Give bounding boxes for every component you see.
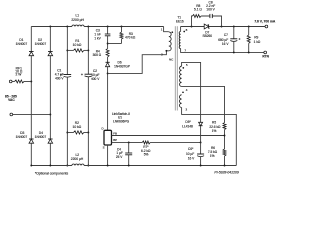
svg-text:1%: 1%	[210, 154, 215, 158]
node D3 bottom	[30, 165, 32, 167]
svg-text:1N4007: 1N4007	[16, 42, 28, 46]
label pin 7	[184, 48, 186, 52]
wire bottom rail left	[31, 165, 72, 167]
label L2	[71, 153, 84, 161]
label D5	[182, 120, 193, 129]
svg-text:D: D	[102, 127, 104, 131]
transformer secondary winding	[179, 32, 180, 49]
wire source pin	[107, 145, 109, 166]
wire RF1 to bridge	[12, 80, 31, 82]
resistor R4	[106, 49, 109, 58]
label C7	[218, 33, 229, 46]
node D2 top	[49, 26, 51, 28]
wire R4 to D6	[107, 57, 109, 62]
svg-text:1 kV: 1 kV	[94, 36, 101, 40]
svg-text:D5*: D5*	[185, 120, 191, 124]
label C4	[116, 148, 123, 160]
resistor R5	[223, 123, 226, 130]
svg-text:1%: 1%	[212, 129, 217, 133]
label LinkSwitch	[112, 112, 130, 124]
wire pin8 up	[180, 27, 182, 32]
wire AC neutral to bridge	[13, 113, 51, 115]
terminal RTN	[264, 51, 267, 54]
node R9 bottom	[248, 52, 250, 54]
label R8	[194, 4, 202, 12]
svg-text:PI-5928-042209: PI-5928-042209	[214, 170, 238, 174]
transformer bias winding upper	[180, 66, 182, 86]
wire R5 to R6	[224, 130, 226, 149]
label pin D	[102, 127, 104, 131]
wire C1 branch lower	[66, 77, 68, 166]
svg-text:EE16: EE16	[176, 19, 184, 23]
node C2-R1	[87, 49, 89, 51]
label output voltage	[254, 19, 276, 23]
svg-text:400 V: 400 V	[55, 76, 64, 80]
resistor R9	[247, 27, 250, 53]
label RF1	[15, 66, 23, 76]
wire bridge left branch lower	[30, 143, 32, 165]
node RF1 junction	[30, 81, 32, 83]
svg-text:2200 µH: 2200 µH	[71, 18, 84, 22]
label RTN	[262, 55, 269, 59]
wire C2 branch lower	[87, 77, 89, 166]
node R3 top	[121, 26, 123, 28]
label C8	[206, 0, 215, 11]
wire D6 to drain node	[107, 67, 109, 131]
label pin 2	[161, 53, 163, 57]
wire bridge right branch lower	[49, 143, 51, 165]
svg-text:1N4007: 1N4007	[35, 42, 47, 46]
node C3 top	[107, 26, 109, 28]
node C1 bottom	[66, 165, 68, 167]
label pin 4	[186, 88, 188, 92]
resistor R2	[67, 131, 88, 134]
label C6	[186, 147, 195, 160]
resistor RF1	[15, 80, 24, 83]
wire R6 to rail	[224, 156, 226, 166]
label C1	[55, 69, 65, 81]
wire bridge right branch mid	[49, 56, 51, 139]
diode D3 1N4007	[29, 139, 34, 143]
svg-text:470 kΩ: 470 kΩ	[125, 36, 136, 40]
inductor L1	[72, 25, 84, 27]
svg-text:300 Ω: 300 Ω	[93, 53, 102, 57]
svg-text:SB260: SB260	[203, 34, 213, 38]
label R1	[73, 39, 82, 47]
primary phase dot	[171, 31, 173, 33]
svg-text:16 V: 16 V	[188, 157, 195, 161]
node C2-R2	[87, 132, 89, 134]
label pin S	[103, 145, 105, 149]
label D7	[203, 31, 213, 39]
svg-text:2200 µH: 2200 µH	[71, 157, 84, 161]
node pin2 corner	[165, 50, 167, 52]
node FB divider	[224, 135, 226, 137]
svg-text:1N4007: 1N4007	[35, 135, 47, 139]
transformer primary winding	[169, 32, 171, 51]
terminal output positive	[265, 25, 268, 28]
resistor R7	[142, 141, 150, 144]
label pin FB	[113, 132, 117, 136]
wire bridge left branch upper	[30, 27, 32, 52]
inductor L2	[72, 164, 84, 166]
node source bottom	[107, 165, 109, 167]
node C7 top	[233, 26, 235, 28]
label C3	[94, 29, 101, 41]
wire top rail mid	[84, 26, 164, 28]
label pin BP	[113, 138, 117, 142]
node C1-R1	[66, 49, 68, 51]
capacitor C6	[197, 142, 204, 165]
resistor R3	[108, 27, 123, 44]
transformer bias winding lower	[179, 95, 181, 108]
svg-text:100 V: 100 V	[206, 8, 215, 12]
svg-text:7.6 V, 700 mA: 7.6 V, 700 mA	[254, 19, 276, 23]
svg-text:400 V: 400 V	[91, 77, 100, 81]
svg-text:1N4007: 1N4007	[16, 135, 28, 139]
wire C3 branch top	[107, 27, 109, 35]
svg-text:C6*: C6*	[188, 147, 194, 151]
svg-text:C7: C7	[224, 33, 228, 37]
label D6	[114, 61, 130, 69]
node snubber right	[221, 26, 223, 28]
terminal AC line	[9, 80, 12, 83]
wire BP	[112, 141, 201, 143]
wire C2 branch upper	[87, 27, 89, 75]
label R5	[209, 121, 221, 133]
secondary phase dot	[183, 31, 185, 33]
label R7	[141, 145, 151, 157]
label C2	[91, 69, 100, 81]
wire D5 to BP node	[200, 126, 202, 143]
svg-text:VAC: VAC	[8, 98, 15, 102]
svg-text:5.1 Ω: 5.1 Ω	[194, 8, 202, 12]
label optional components	[35, 171, 69, 175]
node C1 top	[66, 26, 68, 28]
diode D5 LL4148	[199, 122, 203, 125]
svg-text:LNK606PG: LNK606PG	[113, 119, 130, 123]
diode D2 1N4007	[48, 52, 53, 56]
diode D7 SB260	[204, 24, 209, 29]
capacitor C2	[81, 73, 92, 76]
node C4 top	[128, 142, 130, 144]
svg-text:16 V: 16 V	[222, 42, 229, 46]
node C2 bottom	[87, 165, 89, 167]
diode D1 1N4007	[29, 52, 34, 56]
svg-text:10 kΩ: 10 kΩ	[73, 43, 82, 47]
wire C1 branch upper	[66, 27, 68, 75]
svg-text:R9: R9	[254, 35, 258, 39]
wire bottom rail right	[84, 165, 236, 167]
wire FB	[112, 135, 225, 137]
label pin 1	[161, 28, 163, 32]
node R9 top	[248, 26, 250, 28]
svg-text:10 µF: 10 µF	[186, 152, 194, 156]
wire bridge left branch mid	[30, 56, 32, 139]
wire pin5 to D5	[182, 62, 201, 122]
svg-text:BP: BP	[113, 138, 117, 142]
wire secondary top	[181, 26, 265, 28]
svg-text:2 W: 2 W	[15, 72, 22, 76]
node C2 top	[87, 26, 89, 28]
bias upper phase dot	[182, 67, 184, 69]
wire top rail left	[31, 26, 72, 28]
node C7 bottom	[233, 52, 235, 54]
terminal AC neutral	[10, 113, 13, 116]
svg-text:10 kΩ: 10 kΩ	[73, 125, 82, 129]
label R4	[93, 49, 102, 56]
wire drain to primary pin2	[108, 51, 169, 74]
snubber loop wires	[192, 16, 222, 27]
label NC	[169, 57, 174, 61]
wire secondary return	[181, 49, 264, 53]
label pin 3	[185, 107, 187, 111]
label pin 8	[186, 28, 188, 32]
node snubber left	[191, 26, 193, 28]
wire bridge right branch upper	[49, 27, 51, 52]
svg-text:1 kΩ: 1 kΩ	[254, 40, 261, 44]
node clamp junction	[107, 43, 109, 45]
capacitor C1	[60, 74, 71, 77]
node C1-R2	[66, 132, 68, 134]
svg-text:RTN: RTN	[262, 55, 269, 59]
label part number	[214, 170, 238, 174]
label D4	[35, 131, 47, 139]
label pin 5	[186, 63, 188, 67]
label D2	[35, 38, 47, 46]
bias lower phase dot	[182, 91, 184, 93]
node BP bias junction	[200, 142, 202, 144]
node R6 bottom	[224, 165, 226, 167]
diode D4 1N4007	[48, 139, 53, 143]
resistor R8	[193, 15, 202, 18]
transformer core	[175, 26, 177, 110]
node AC2 junction	[49, 114, 51, 116]
node drain tee	[107, 72, 109, 74]
node C4 bottom	[128, 165, 130, 167]
capacitor C8	[210, 14, 212, 18]
label R2	[73, 121, 82, 129]
svg-text:25 V: 25 V	[116, 155, 123, 159]
label 85-265 VAC	[5, 94, 17, 102]
op-amp U1 LNK606PG box	[104, 130, 112, 145]
label R6	[208, 146, 218, 158]
label L1	[71, 14, 84, 22]
label D1	[16, 38, 28, 46]
resistor R1	[67, 49, 88, 52]
label R9	[254, 35, 261, 44]
label D3	[16, 131, 28, 139]
wire C3 to R4	[107, 36, 109, 49]
wire pin3 to rail	[182, 108, 237, 166]
wire pin1 from rail	[164, 27, 169, 32]
capacitor C7	[230, 27, 240, 53]
label T1 EE16	[176, 16, 184, 24]
svg-text:S: S	[103, 145, 105, 149]
label R3	[125, 32, 136, 40]
resistor R6	[223, 149, 226, 156]
diode D6 1N4937GP	[106, 62, 110, 66]
capacitor C4	[125, 142, 132, 165]
svg-text:LL4148: LL4148	[182, 125, 193, 129]
svg-text:5%: 5%	[144, 153, 149, 157]
svg-text:*Optional components: *Optional components	[35, 171, 69, 175]
wire pin4 to R5	[182, 86, 225, 122]
capacitor C3	[105, 34, 111, 36]
node D4 bottom	[49, 165, 51, 167]
node C6 bottom	[200, 165, 202, 167]
svg-text:1N4937GP: 1N4937GP	[114, 65, 130, 69]
